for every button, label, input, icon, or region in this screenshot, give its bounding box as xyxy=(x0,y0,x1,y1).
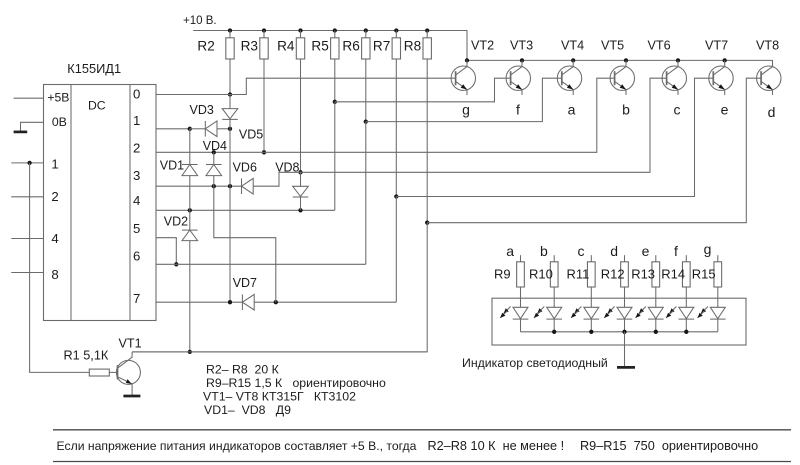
svg-text:c: c xyxy=(674,102,681,118)
label segment net f xyxy=(516,102,520,118)
resistor R6 xyxy=(342,31,370,60)
wire row3 xyxy=(156,185,242,187)
label VD8 xyxy=(275,161,299,175)
LED b xyxy=(534,287,562,332)
node collector bus VT7 xyxy=(723,58,727,62)
svg-text:4: 4 xyxy=(51,231,58,246)
svg-text:d: d xyxy=(768,104,776,120)
wire 0V pin xyxy=(21,122,44,131)
svg-text:VD2: VD2 xyxy=(164,215,188,229)
wire input 1 xyxy=(11,162,43,164)
resistor R2 xyxy=(197,31,234,60)
node R7-e xyxy=(394,194,398,198)
wire segment f xyxy=(335,78,511,102)
wire R5 column lower xyxy=(334,102,336,211)
svg-text:R11: R11 xyxy=(567,266,590,281)
node R4-c xyxy=(298,170,302,174)
node R5-f xyxy=(333,100,337,104)
ground VT1 bar xyxy=(123,395,140,398)
label VD3 xyxy=(190,103,214,117)
svg-text:8: 8 xyxy=(51,267,58,282)
wire row0 / segment g xyxy=(156,78,456,94)
svg-text:f: f xyxy=(674,243,678,259)
node collector bus VT2 xyxy=(465,58,469,62)
svg-text:4: 4 xyxy=(133,193,140,208)
node row1-VD3 xyxy=(228,127,232,131)
svg-text:VT5: VT5 xyxy=(601,38,624,52)
transistor VT7 xyxy=(709,60,733,95)
svg-text:7: 7 xyxy=(133,291,140,306)
node collector bus VT3 xyxy=(520,58,524,62)
resistor R9 xyxy=(494,255,524,287)
wire R7 column xyxy=(395,59,397,197)
node rail junction R4 xyxy=(298,28,302,32)
wire R6 column lower xyxy=(365,122,367,265)
label segment net a xyxy=(568,102,576,118)
node row3-col230 xyxy=(228,184,232,188)
label indicator pin e xyxy=(642,243,650,259)
wire R2 column xyxy=(229,59,231,95)
label DC xyxy=(88,99,106,113)
svg-text:VD4: VD4 xyxy=(203,139,227,153)
svg-text:f: f xyxy=(516,102,520,118)
svg-text:c: c xyxy=(578,243,585,259)
wire input1 to R1 xyxy=(30,163,90,373)
node row4-VD2col xyxy=(188,208,192,212)
svg-text:g: g xyxy=(462,102,470,118)
label indicator pin a xyxy=(506,243,514,259)
svg-text:VD3: VD3 xyxy=(190,103,214,117)
pin label 2 xyxy=(51,189,58,204)
svg-text:R3: R3 xyxy=(241,39,258,54)
svg-text:a: a xyxy=(568,102,576,118)
wire R8 column lower xyxy=(132,223,427,352)
svg-text:e: e xyxy=(642,243,650,259)
label segment net e xyxy=(721,102,729,118)
label VD4 xyxy=(203,139,227,153)
resistor R14 xyxy=(661,255,690,287)
label segment net b xyxy=(622,102,630,118)
node LED common junction xyxy=(589,330,593,334)
LED g xyxy=(698,287,726,332)
transistor VT1 xyxy=(116,352,140,395)
pin label +5V xyxy=(47,91,69,105)
node R3-row2 xyxy=(262,150,266,154)
svg-text:DC: DC xyxy=(88,99,106,113)
node R2-row0 xyxy=(228,92,232,96)
node R8-d xyxy=(425,221,429,225)
svg-text:VD8: VD8 xyxy=(275,161,299,175)
svg-text:К155ИД1: К155ИД1 xyxy=(67,61,121,76)
svg-text:R13: R13 xyxy=(631,266,655,281)
svg-text:3: 3 xyxy=(133,168,140,183)
resistor R12 xyxy=(601,255,629,287)
svg-text:VT1: VT1 xyxy=(119,337,142,351)
label K155ID1 xyxy=(67,61,121,76)
resistor R11 xyxy=(567,255,596,287)
LED a xyxy=(500,287,528,332)
svg-text:VT4: VT4 xyxy=(561,38,584,52)
indicator box xyxy=(492,298,746,345)
svg-text:e: e xyxy=(721,102,729,118)
label VD6 xyxy=(233,161,257,175)
pin label 3 xyxy=(133,168,140,183)
label VT5 xyxy=(601,38,624,52)
svg-text:R9–R15 750 ориентировочно: R9–R15 750 ориентировочно xyxy=(580,439,758,453)
wire R3 column xyxy=(263,59,265,152)
note line VD1-VD8 xyxy=(204,403,291,417)
label indicator pin b xyxy=(540,243,548,259)
diode VD5 xyxy=(205,121,217,137)
node row7-col230 xyxy=(228,300,232,304)
node LED common junction xyxy=(684,330,688,334)
pin label 5 xyxy=(133,221,140,236)
wire +5V pin xyxy=(14,97,44,99)
wire row1 VD5 right lead xyxy=(217,128,230,130)
wire segment d xyxy=(427,78,761,223)
svg-text:VD6: VD6 xyxy=(233,161,257,175)
node rail junction R6 xyxy=(364,28,368,32)
svg-text:R5: R5 xyxy=(311,39,328,54)
node collector bus VT6 xyxy=(676,58,680,62)
node R6-a xyxy=(364,119,368,123)
label VT6 xyxy=(648,38,671,52)
label VT2 xyxy=(471,38,494,52)
svg-text:b: b xyxy=(622,102,630,118)
wire common to ground xyxy=(624,332,626,366)
wire input 8 xyxy=(11,272,43,274)
LED c xyxy=(571,287,599,332)
label indicator pin c xyxy=(578,243,585,259)
resistor R10 xyxy=(529,255,558,287)
label R1 5,1K xyxy=(64,349,109,363)
note line R2-R8 xyxy=(206,363,280,377)
label indicator pin d xyxy=(610,243,618,259)
pin label 8 xyxy=(51,267,58,282)
svg-text:1: 1 xyxy=(51,156,58,171)
node row4-VD8 xyxy=(298,208,302,212)
wire input 4 xyxy=(11,238,43,240)
wire segment e xyxy=(396,78,713,196)
transistor VT4 xyxy=(557,60,581,95)
label segment net c xyxy=(674,102,681,118)
svg-text:R8: R8 xyxy=(404,39,421,54)
pin label 6 xyxy=(133,248,140,263)
wire input 2 xyxy=(11,196,43,198)
wire R7 column lower xyxy=(395,197,397,303)
diode VD1 xyxy=(182,129,198,211)
svg-text:Если напряжение питания индика: Если напряжение питания индикаторов сост… xyxy=(57,439,417,453)
label segment net d xyxy=(768,104,776,120)
wire R4 column xyxy=(300,59,302,172)
node row6-pin5 xyxy=(174,262,178,266)
svg-text:VT1– VT8 КТ315Г КТ3102: VT1– VT8 КТ315Г КТ3102 xyxy=(203,390,356,404)
svg-text:1: 1 xyxy=(133,113,140,128)
svg-text:a: a xyxy=(506,243,514,259)
transistor VT3 xyxy=(506,60,530,95)
wire VD6 right lead to segment c xyxy=(253,78,666,186)
label VD5 xyxy=(239,127,263,141)
wire row6 xyxy=(156,263,366,265)
node input-1 junction xyxy=(27,161,31,165)
pin label 0 xyxy=(133,87,140,102)
wire collector bus xyxy=(467,60,773,66)
wire VD7 right lead xyxy=(254,301,396,303)
wire VD3 column row1-row3 xyxy=(229,129,231,186)
wire row4 xyxy=(156,209,335,211)
LED d xyxy=(604,287,632,332)
bottom note xyxy=(57,439,759,453)
wire +10V rail xyxy=(193,31,467,61)
label VD1 xyxy=(160,159,184,173)
resistor R4 xyxy=(277,31,305,60)
svg-text:5: 5 xyxy=(133,221,140,236)
svg-text:+10 В.: +10 В. xyxy=(183,15,217,27)
node VD2-VT1 line xyxy=(188,350,192,354)
pin label 1 xyxy=(51,156,58,171)
node LED common junction xyxy=(552,330,556,334)
svg-text:R9: R9 xyxy=(494,266,511,281)
IC U1 K155ID1 decoder body xyxy=(44,85,157,321)
label VT1 xyxy=(119,337,142,351)
note line VT1-VT8 xyxy=(203,390,356,404)
rule bottom xyxy=(53,461,791,463)
svg-text:0В: 0В xyxy=(52,115,67,129)
node collector bus VT5 xyxy=(624,58,628,62)
note line R9-R15 xyxy=(206,376,386,390)
svg-text:R2: R2 xyxy=(197,39,214,54)
node row7-col276 xyxy=(274,300,278,304)
resistor R13 xyxy=(631,255,659,287)
node rail junction R2 xyxy=(228,28,232,32)
diode VD3 xyxy=(222,95,238,129)
label indicator pin f xyxy=(674,243,678,259)
svg-text:6: 6 xyxy=(133,248,140,263)
svg-text:2: 2 xyxy=(51,189,58,204)
svg-text:R9–R15 1,5 К ориентировочно: R9–R15 1,5 К ориентировочно xyxy=(206,376,386,390)
wire VT1 collector line xyxy=(132,351,427,353)
resistor R15 xyxy=(692,255,722,287)
resistor R8 xyxy=(404,31,432,60)
svg-text:g: g xyxy=(704,241,712,257)
svg-text:R4: R4 xyxy=(277,39,295,54)
node row2-VD4col xyxy=(212,150,216,154)
diode VD8 xyxy=(293,172,309,210)
svg-text:b: b xyxy=(540,243,548,259)
diode VD7 xyxy=(242,294,254,310)
svg-text:2: 2 xyxy=(133,141,140,156)
node collector bus VT4 xyxy=(571,58,575,62)
svg-text:R6: R6 xyxy=(342,39,359,54)
wire R5 column xyxy=(334,59,336,102)
transistor VT2 xyxy=(451,60,475,95)
ground 0V bar xyxy=(14,131,28,134)
label VT8 xyxy=(756,38,779,52)
label VT7 xyxy=(705,38,728,52)
svg-text:R1 5,1К: R1 5,1К xyxy=(64,349,109,363)
node rail junction R8 xyxy=(425,28,429,32)
wire col230 row3-row7 xyxy=(229,186,231,302)
svg-text:0: 0 xyxy=(133,87,140,102)
wire row5 stub xyxy=(156,238,176,265)
wire R8 column xyxy=(426,59,428,223)
svg-text:d: d xyxy=(610,243,618,259)
svg-text:VT8: VT8 xyxy=(756,38,779,52)
pin label 4 xyxy=(51,231,58,246)
label +10 V xyxy=(183,15,217,27)
svg-text:R2– R8 20 К: R2– R8 20 К xyxy=(206,363,280,377)
diode VD4 xyxy=(206,152,222,186)
label indicator xyxy=(462,356,608,370)
node LED common junction xyxy=(654,330,658,334)
diode VD6 xyxy=(242,178,254,194)
svg-text:R7: R7 xyxy=(373,39,390,54)
resistor R5 xyxy=(311,31,339,60)
resistor R7 xyxy=(373,31,401,60)
svg-text:R14: R14 xyxy=(661,266,685,281)
node rail junction R3 xyxy=(262,28,266,32)
svg-text:R12: R12 xyxy=(601,266,625,281)
svg-text:VT3: VT3 xyxy=(510,38,533,52)
node row1-VD1col xyxy=(188,127,192,131)
label segment net g xyxy=(462,102,470,118)
wire LED common xyxy=(521,331,718,333)
node LED common junction xyxy=(622,330,626,334)
label VD7 xyxy=(233,276,257,290)
label VT4 xyxy=(561,38,584,52)
svg-text:R2–R8 10 К не менее !: R2–R8 10 К не менее ! xyxy=(428,439,565,453)
pin label 1 xyxy=(133,113,140,128)
rule top xyxy=(53,429,791,431)
resistor R1 xyxy=(89,369,117,376)
svg-text:R15: R15 xyxy=(692,266,716,281)
label VT3 xyxy=(510,38,533,52)
ground indicator bar xyxy=(617,366,635,369)
wire row1 xyxy=(156,128,190,130)
node rail junction R5 xyxy=(333,28,337,32)
svg-text:Индикатор светодиодный: Индикатор светодиодный xyxy=(462,356,608,370)
transistor VT5 xyxy=(610,60,634,95)
svg-text:VT2: VT2 xyxy=(471,38,494,52)
pin label 7 xyxy=(133,291,140,306)
pin label 0V xyxy=(52,115,67,129)
diode VD2 xyxy=(182,210,198,352)
svg-text:VD1: VD1 xyxy=(160,159,184,173)
wire col214 lower route xyxy=(214,186,276,302)
svg-text:VD7: VD7 xyxy=(233,276,257,290)
transistor VT6 xyxy=(662,60,686,95)
LED f xyxy=(666,287,694,332)
svg-text:VT6: VT6 xyxy=(648,38,671,52)
LED e xyxy=(636,287,664,332)
node rail junction R7 xyxy=(394,28,398,32)
svg-text:VD1– VD8 Д9: VD1– VD8 Д9 xyxy=(204,403,291,417)
label VD2 xyxy=(164,215,188,229)
wire row2 / segment b xyxy=(156,78,615,152)
wire segment a xyxy=(366,78,562,121)
svg-text:R10: R10 xyxy=(529,266,553,281)
pin label 2 xyxy=(133,141,140,156)
label indicator pin g xyxy=(704,241,712,257)
svg-text:VD5: VD5 xyxy=(239,127,263,141)
wire row1 VD5 left lead xyxy=(190,128,206,130)
wire row7 xyxy=(156,301,242,303)
wire R6 column xyxy=(365,59,367,122)
node row3-VD4col xyxy=(212,184,216,188)
transistor VT8 xyxy=(757,60,781,95)
svg-text:VT7: VT7 xyxy=(705,38,728,52)
svg-text:+5В: +5В xyxy=(47,91,69,105)
pin label 4 xyxy=(133,193,140,208)
resistor R3 xyxy=(241,31,269,60)
